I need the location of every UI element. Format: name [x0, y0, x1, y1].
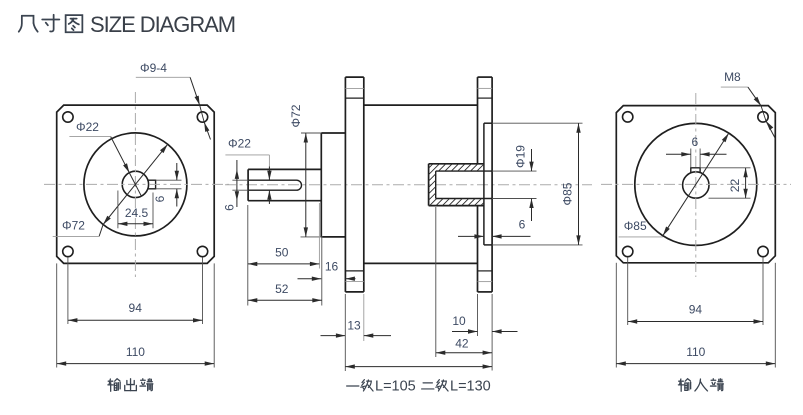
left view pilot circle Phi72: [84, 133, 187, 236]
label Phi9-4 with leader to corner hole: [136, 61, 211, 140]
dimension Phi72 boss diameter: [289, 104, 323, 237]
dimension Phi22 output shaft diameter: [225, 137, 269, 208]
svg-text:Φ19: Φ19: [514, 145, 528, 168]
gearbox body (110 square housing, side view): [364, 105, 478, 263]
label Phi72 with diameter line across pilot circle: [53, 144, 168, 236]
svg-text:110: 110: [126, 345, 145, 359]
svg-text:16: 16: [325, 260, 339, 274]
svg-text:13: 13: [347, 319, 361, 333]
label 一级L=105 二级L=130: [347, 379, 491, 395]
svg-text:6: 6: [153, 195, 167, 202]
dimension Phi19 input bore: [514, 145, 534, 221]
dimension 94 hole spacing (right view): [628, 257, 763, 325]
svg-text:24.5: 24.5: [125, 206, 149, 220]
left view vertical centerline: [134, 92, 136, 277]
middle view horizontal centerline: [225, 184, 592, 186]
label Phi22 with leader into shaft bore: [69, 120, 141, 196]
right view input bore Phi19: [683, 172, 709, 198]
dimension 16 boss length: [298, 260, 356, 281]
svg-text:94: 94: [129, 301, 143, 315]
right view vertical centerline: [695, 93, 697, 277]
dimension 24.5 (left view): [118, 191, 153, 229]
dimension 6 pilot disc thickness: [458, 218, 531, 239]
dimension Phi85 pilot diameter: [561, 123, 581, 245]
svg-text:Φ22: Φ22: [228, 137, 251, 151]
svg-text:10: 10: [452, 314, 466, 328]
dimension 13 output flange thickness: [321, 294, 392, 341]
svg-text:Φ9-4: Φ9-4: [140, 61, 167, 75]
left view horizontal centerline: [44, 183, 229, 185]
svg-text:110: 110: [686, 345, 705, 359]
svg-text:SIZE DIAGRAM: SIZE DIAGRAM: [90, 12, 235, 37]
svg-text:6: 6: [519, 218, 526, 232]
left view mounting holes Phi9 x4: [63, 112, 208, 257]
label M8 with leader to corner hole: [721, 70, 775, 138]
right view flange outline (110x110 square, chamfered corners): [616, 106, 775, 263]
input mounting flange plate (side view, 10 thick): [478, 77, 493, 292]
right view keyway slot above bore: [691, 168, 700, 173]
svg-text:Φ72: Φ72: [289, 104, 303, 127]
dimension 110 flange width (right view): [616, 263, 775, 368]
Phi72 boss (side view): [321, 133, 345, 237]
dimension 110 flange width (left view): [57, 263, 215, 367]
right view horizontal centerline: [601, 183, 791, 185]
svg-text:Φ72: Φ72: [62, 219, 85, 233]
svg-text:6: 6: [223, 204, 237, 211]
dimension 10 input flange thickness: [452, 294, 518, 371]
svg-text:Φ85: Φ85: [561, 182, 575, 205]
dimension 52 shaft to shoulder: [248, 282, 322, 303]
output shaft keyway slot (side view): [249, 180, 302, 190]
dimension 42 input side length: [436, 207, 492, 357]
svg-text:6: 6: [692, 135, 699, 149]
output mounting flange plate (side view, 13 thick): [345, 77, 363, 292]
svg-text:L=130: L=130: [450, 379, 491, 395]
dimension 50 shaft length: [248, 203, 320, 306]
label 输出端 (output end): [108, 379, 153, 392]
svg-text:L=105: L=105: [375, 379, 416, 395]
dimension 94 hole spacing (left view): [68, 257, 203, 324]
output shaft (side view): [248, 169, 321, 200]
dimension 6 keyway width (side view): [223, 167, 272, 211]
left view flange outline (110x110 square, chamfered corners): [57, 105, 215, 263]
svg-text:M8: M8: [724, 70, 741, 84]
svg-text:52: 52: [275, 282, 289, 296]
input bore extension lines for Phi19: [492, 170, 536, 172]
shaft shoulder / boss face: [320, 133, 322, 237]
svg-text:50: 50: [275, 246, 289, 260]
right view pilot circle Phi85: [635, 123, 757, 245]
title: 尺寸图 SIZE DIAGRAM: [19, 12, 235, 37]
dimension 6 keyway width (right view): [666, 135, 727, 168]
svg-text:Φ85: Φ85: [624, 219, 647, 233]
keyway slot extension lines to left: [232, 179, 248, 181]
svg-text:94: 94: [689, 303, 703, 317]
hollow input shaft sleeve (cross-section): [374, 160, 546, 210]
right view mounting holes M8 x4: [623, 112, 769, 257]
left view keyway on shaft: [148, 180, 155, 189]
svg-text:42: 42: [455, 337, 469, 351]
svg-text:22: 22: [728, 179, 742, 193]
Phi85 pilot disc edge (side view): [484, 123, 583, 245]
left view output shaft bore Phi22: [122, 171, 148, 197]
label Phi85 with diameter line (right view): [619, 133, 729, 237]
dimension overall length L: [345, 294, 492, 371]
dimension 22 keyway to bore bottom: [700, 168, 750, 198]
dimension 6 keyway width (left view): [153, 163, 182, 207]
svg-text:Φ22: Φ22: [76, 120, 99, 134]
label 输入端 (input end): [678, 379, 723, 392]
